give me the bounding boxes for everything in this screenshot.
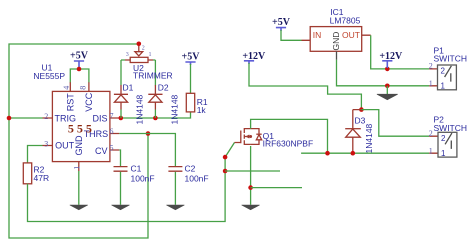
- svg-text:1: 1: [441, 149, 446, 158]
- svg-text:1: 1: [149, 52, 152, 58]
- svg-text:OUT: OUT: [55, 141, 75, 151]
- ground C2: [166, 205, 184, 210]
- svg-text:47R: 47R: [34, 173, 50, 183]
- svg-text:1: 1: [429, 79, 433, 88]
- wire Q1 source to ground: [250, 146, 252, 205]
- svg-text:3: 3: [44, 139, 48, 148]
- node junction source stub: [248, 185, 253, 190]
- node junction +5V: [77, 67, 82, 72]
- wire TRIG from left rail: [9, 117, 43, 119]
- svg-text:D1: D1: [123, 83, 134, 93]
- connector P1 SWITCH: [429, 46, 467, 91]
- diode D1 1N4148: [114, 83, 145, 125]
- svg-text:D2: D2: [158, 83, 169, 93]
- power +5V symbol U1: [70, 51, 89, 69]
- power +5V symbol R1: [182, 52, 201, 66]
- wire D3 node to P2 pin2: [361, 110, 429, 137]
- wire source stub dangling: [251, 187, 302, 189]
- wire ground stem P1: [386, 86, 388, 94]
- transistor Q1 IRF630NPBF: [235, 128, 314, 149]
- node junction D3 anode: [351, 151, 356, 156]
- svg-text:1k: 1k: [197, 105, 207, 115]
- wire IC1 OUT to P1 pin2: [371, 35, 430, 69]
- svg-text:2: 2: [44, 112, 48, 121]
- svg-text:SWITCH: SWITCH: [434, 53, 468, 63]
- wire CV to C1: [119, 150, 120, 166]
- wire DIS rail to R1: [119, 112, 190, 118]
- svg-text:RST: RST: [65, 93, 75, 112]
- svg-text:C1: C1: [131, 164, 142, 174]
- wire gate diagonal: [225, 143, 234, 158]
- svg-text:IRF630NPBF: IRF630NPBF: [263, 139, 314, 149]
- svg-text:1N4148: 1N4148: [170, 94, 180, 124]
- node junction D3 cathode: [359, 107, 364, 112]
- ground P1: [377, 94, 398, 100]
- power +12V symbol left: [242, 51, 266, 64]
- node junction D1 cathode DIS rail: [119, 116, 124, 121]
- svg-text:CV: CV: [95, 146, 108, 156]
- svg-text:NE555P: NE555P: [33, 71, 65, 81]
- ground C1: [112, 205, 130, 210]
- node junction left rail TRIG: [7, 116, 12, 121]
- svg-text:LM7805: LM7805: [330, 15, 361, 25]
- svg-text:+5V: +5V: [70, 51, 89, 62]
- potentiometer U2 TRIMMER: [121, 42, 173, 86]
- node junction +12V P1 pin2: [385, 67, 390, 72]
- svg-text:2: 2: [429, 129, 433, 138]
- diode D3 1N4148: [345, 110, 374, 154]
- svg-text:8: 8: [79, 86, 88, 90]
- node junction gate: [223, 155, 228, 160]
- wire Q1 drain to bottom-right rail: [251, 119, 328, 153]
- wire 555 GND to ground: [78, 171, 80, 205]
- svg-text:2: 2: [142, 45, 145, 51]
- svg-text:6: 6: [110, 127, 114, 136]
- wire IC1 GND rail to P1 pin1: [337, 60, 430, 86]
- resistor R1 1k: [186, 64, 208, 115]
- wire R2 bottom rail to Q1 gate: [28, 157, 226, 221]
- connector P2 SWITCH: [429, 115, 467, 158]
- node junction THRS riser: [146, 131, 151, 136]
- IC U1 NE555P 555 timer: [33, 63, 119, 172]
- wire OUT to R2: [28, 146, 43, 163]
- svg-text:C2: C2: [185, 164, 196, 174]
- resistor R2 47R: [23, 163, 49, 184]
- wire top loop from trimmer wiper to left rail down to bottom and up to THRS: [9, 44, 148, 238]
- wire THRS rail to C2: [119, 134, 175, 167]
- diode D2 1N4148: [148, 83, 179, 125]
- svg-text:1: 1: [441, 82, 446, 91]
- voltage regulator IC1 LM7805: [302, 7, 371, 60]
- wire +12V to D3 cathode node: [249, 63, 361, 110]
- node junction ground P1 pin1: [385, 84, 390, 89]
- wire +5V to IC1 IN: [281, 30, 302, 40]
- svg-text:GND: GND: [74, 135, 84, 156]
- svg-text:2: 2: [441, 134, 446, 143]
- svg-text:555: 555: [68, 122, 95, 136]
- svg-text:5: 5: [110, 143, 114, 152]
- svg-text:+5V: +5V: [182, 52, 201, 63]
- svg-text:IN: IN: [313, 30, 322, 40]
- svg-text:2: 2: [429, 62, 433, 71]
- svg-text:1: 1: [429, 146, 433, 155]
- wire +5V goalpost to RST VCC: [70, 69, 89, 83]
- ground 555: [70, 205, 88, 210]
- power +12V symbol P1: [379, 51, 403, 68]
- svg-text:2: 2: [441, 67, 446, 76]
- node junction drain rail: [325, 151, 330, 156]
- svg-text:OUT: OUT: [342, 30, 360, 40]
- svg-text:1N4148: 1N4148: [135, 94, 145, 124]
- capacitor C1 100nF: [114, 164, 155, 205]
- svg-text:TRIMMER: TRIMMER: [133, 70, 173, 80]
- svg-text:7: 7: [110, 111, 114, 120]
- power +5V symbol IC1: [272, 17, 291, 31]
- node junction gate stub: [223, 169, 228, 174]
- wire bottom-right rail to P2 pin1: [301, 152, 429, 154]
- svg-text:VCC: VCC: [84, 92, 94, 112]
- ground Q1: [242, 205, 260, 210]
- svg-text:100nF: 100nF: [185, 174, 209, 184]
- svg-text:4: 4: [62, 86, 71, 90]
- wire gate stub dangling: [225, 170, 280, 172]
- svg-text:SWITCH: SWITCH: [434, 123, 468, 133]
- svg-text:3: 3: [126, 52, 129, 58]
- svg-text:GND: GND: [331, 32, 341, 51]
- svg-text:100nF: 100nF: [131, 174, 155, 184]
- node junction D2 cathode DIS rail: [153, 116, 158, 121]
- svg-text:1: 1: [72, 166, 81, 170]
- capacitor C2 100nF: [168, 164, 208, 205]
- svg-text:1N4148: 1N4148: [364, 123, 374, 153]
- svg-text:+5V: +5V: [272, 17, 291, 28]
